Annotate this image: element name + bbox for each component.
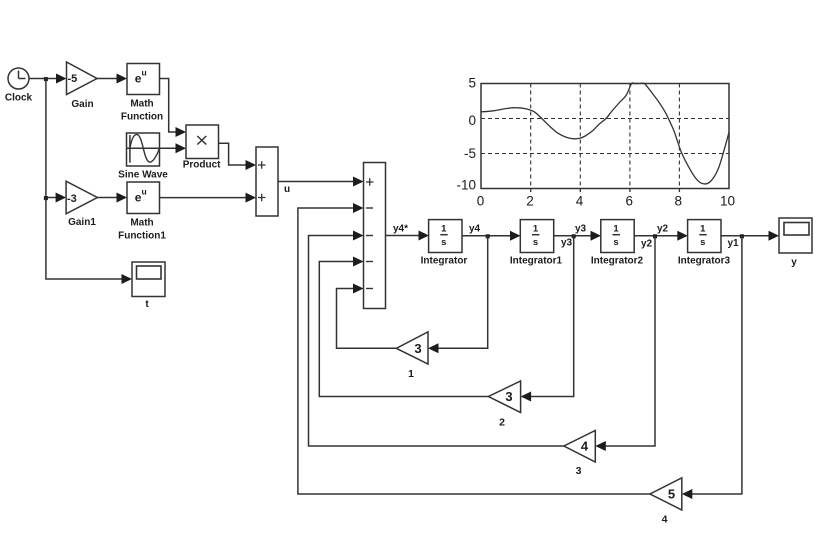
wire Sum to Sum1 labelled u: [278, 177, 364, 196]
wire Integrator2 to Integrator3 labelled y2: [634, 224, 688, 250]
svg-text:2: 2: [499, 417, 505, 429]
wire Integrator3 to scope y labelled y1: [720, 231, 779, 249]
svg-text:Math: Math: [130, 99, 153, 110]
node branch junction at Gain1 input: [44, 196, 48, 200]
wire Product to Sum input 1: [219, 143, 257, 170]
scope plot gridline x=8: [678, 84, 680, 189]
integrator Integrator2 1/s: [591, 220, 644, 267]
svg-text:6: 6: [625, 194, 633, 209]
node junction y1: [740, 234, 744, 238]
svg-text:Integrator1: Integrator1: [510, 256, 563, 267]
scope plot gridline x=2: [530, 84, 532, 189]
svg-text:Function1: Function1: [118, 231, 166, 242]
gain 4 feedback (label 3): [564, 431, 595, 478]
gain 3 feedback (label 2): [488, 381, 520, 429]
scope plot gridline y=0: [481, 118, 729, 120]
svg-text:y4: y4: [469, 224, 481, 235]
svg-text:s: s: [613, 237, 618, 248]
svg-text:3: 3: [414, 341, 421, 356]
wire Sine Wave to Product input 2: [160, 143, 187, 153]
wire y1 feedback down to gain 5 (label 4): [682, 236, 742, 499]
block Math Function e^u: [121, 64, 163, 123]
svg-text:0: 0: [477, 194, 485, 209]
wire Sum1 to Integrator labelled y4*: [386, 224, 430, 241]
wire Math Function to Product input 1: [160, 79, 187, 138]
wire y2 feedback down to gain 4 (label 3): [595, 236, 655, 451]
sum Sum1 (+ - - - -): [364, 163, 386, 309]
svg-text:8: 8: [675, 194, 683, 209]
svg-text:s: s: [700, 237, 705, 248]
integrator Integrator3 1/s: [678, 220, 731, 267]
svg-text:Product: Product: [183, 160, 221, 171]
svg-text:y3: y3: [575, 224, 587, 235]
svg-text:Gain1: Gain1: [68, 217, 96, 228]
scope t: [132, 262, 165, 310]
scope plot gridline x=4: [579, 84, 581, 189]
gain 5 feedback (label 4): [650, 478, 682, 526]
node junction y4: [486, 234, 490, 238]
svg-text:10: 10: [720, 194, 735, 209]
svg-text:-10: -10: [456, 178, 476, 193]
wire gain 5 output to Sum1 input 2: [298, 203, 650, 494]
svg-text:Clock: Clock: [5, 93, 33, 104]
scope plot y axis labels: [456, 76, 476, 193]
svg-text:y1: y1: [728, 238, 740, 249]
svg-text:4: 4: [581, 439, 589, 454]
wire Integrator to Integrator1 labelled y4: [462, 224, 521, 241]
svg-text:Gain: Gain: [71, 99, 93, 110]
integrator Integrator 1/s: [421, 220, 468, 267]
wire Math Function1 to Sum input 2: [160, 193, 257, 203]
svg-text:-5: -5: [68, 73, 78, 85]
wire clock branch down to scope t: [46, 198, 132, 285]
svg-text:1: 1: [700, 224, 706, 235]
block Math Function1 e^u: [118, 182, 166, 242]
svg-text:1: 1: [533, 224, 539, 235]
svg-text:1: 1: [613, 224, 619, 235]
svg-text:3: 3: [505, 389, 512, 404]
node junction y3: [572, 234, 576, 238]
svg-text:u: u: [284, 184, 290, 195]
node junction y2: [653, 234, 657, 238]
scope plot gridline y=-5: [481, 153, 729, 155]
svg-text:0: 0: [468, 113, 476, 128]
svg-text:1: 1: [441, 224, 447, 235]
wire Gain1 to Math Function1: [97, 193, 127, 203]
svg-text:Math: Math: [130, 218, 153, 229]
svg-text:Sine Wave: Sine Wave: [118, 170, 168, 181]
svg-text:4: 4: [662, 514, 668, 526]
scope plot gridline x=6: [629, 84, 631, 189]
svg-text:Integrator3: Integrator3: [678, 256, 731, 267]
svg-text:Function: Function: [121, 112, 163, 123]
svg-text:5: 5: [468, 76, 476, 91]
svg-text:Integrator: Integrator: [421, 256, 468, 267]
svg-text:5: 5: [668, 487, 675, 502]
wire gain 4 output to Sum1 input 3: [309, 231, 564, 447]
sum Sum (+ +): [256, 147, 278, 216]
svg-text:-3: -3: [67, 193, 77, 205]
svg-text:1: 1: [408, 368, 414, 380]
svg-text:-5: -5: [464, 146, 476, 161]
wire gain 3 output to Sum1 input 5: [337, 284, 397, 349]
wire y3 feedback down to gain 3 (label 2): [521, 236, 574, 402]
svg-text:Integrator2: Integrator2: [591, 256, 644, 267]
svg-text:4: 4: [576, 194, 584, 209]
svg-text:y4*: y4*: [393, 224, 408, 235]
wire Gain to Math Function: [97, 74, 127, 84]
node branch junction at clock output: [44, 77, 48, 81]
svg-text:s: s: [533, 237, 538, 248]
wire clock branch down to Gain1: [46, 79, 66, 203]
scope plot curve y4(t): [481, 83, 729, 184]
gain Gain -5: [67, 62, 98, 110]
wire gain 3 (label 2) output to Sum1 input 4: [319, 257, 488, 397]
wire y4 feedback down to gain 3: [428, 236, 488, 354]
scope y: [779, 218, 812, 268]
scope plot x axis labels: [477, 194, 735, 209]
source Sine Wave: [118, 133, 168, 181]
scope plot axis ticks: [531, 189, 680, 193]
svg-text:y2: y2: [657, 224, 669, 235]
block Product: [183, 125, 221, 171]
svg-text:y2: y2: [641, 239, 653, 250]
gain Gain1 -3: [66, 181, 97, 228]
svg-text:2: 2: [526, 194, 534, 209]
wire Integrator1 to Integrator2 labelled y3: [553, 224, 601, 249]
svg-text:y3: y3: [561, 238, 573, 249]
svg-text:3: 3: [576, 465, 582, 477]
clock Clock: [5, 68, 33, 104]
scope plot axes box: [481, 84, 729, 189]
gain 3 feedback (label 1): [396, 332, 428, 380]
wire Clock to Gain: [29, 74, 67, 84]
svg-text:y: y: [791, 257, 797, 268]
svg-text:s: s: [441, 237, 446, 248]
integrator Integrator1 1/s: [510, 220, 563, 267]
